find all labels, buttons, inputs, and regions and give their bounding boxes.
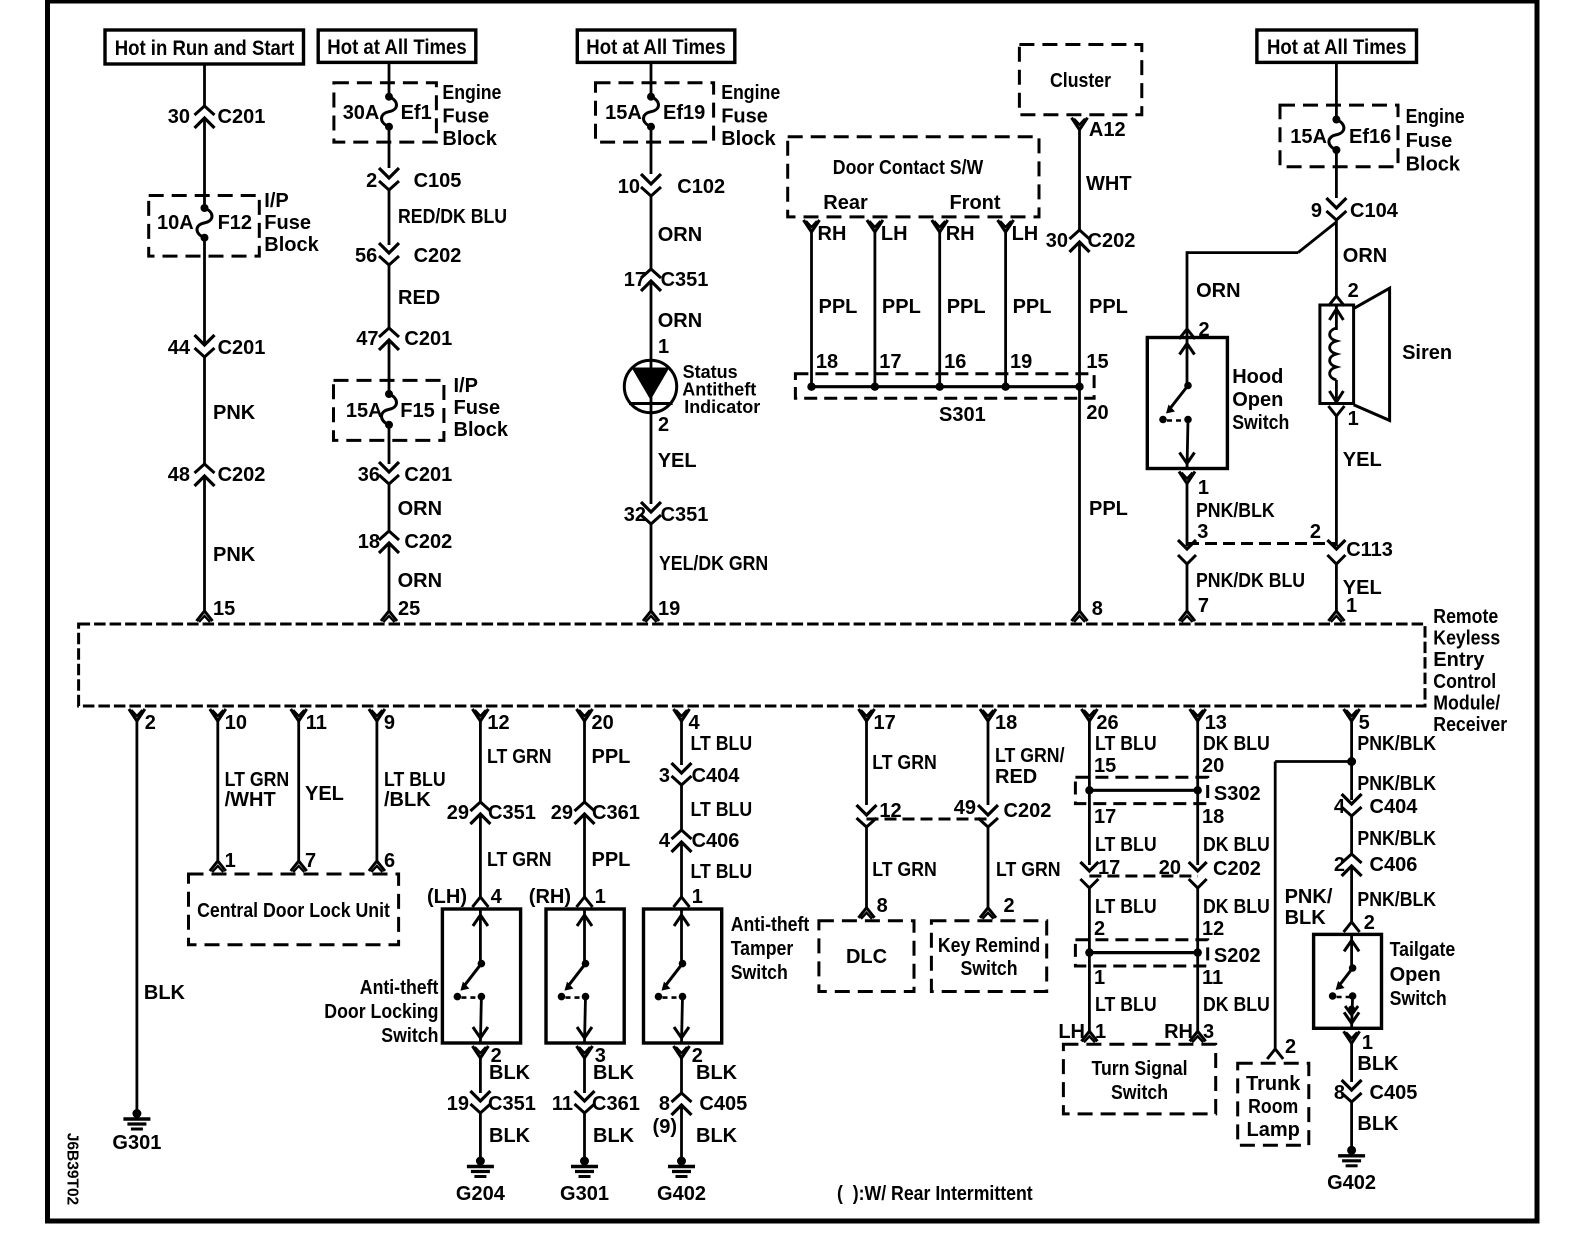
svg-text:4: 4 bbox=[689, 712, 701, 734]
svg-text:6: 6 bbox=[384, 850, 395, 872]
svg-text:LT BLU: LT BLU bbox=[691, 861, 753, 883]
wire LT BLU from C406 to tamper switch pin 1 bbox=[680, 842, 683, 898]
Central Door Lock Unit dashed box bbox=[189, 874, 399, 945]
svg-text:PPL: PPL bbox=[1089, 296, 1128, 318]
wire YEL from siren pin 1 to C113 bbox=[1335, 416, 1338, 546]
RH switch pin 3 fork bbox=[577, 1046, 593, 1058]
module pin 7 (top of RKE module) bbox=[1179, 611, 1195, 621]
door lock unit pin 1 fork bbox=[210, 861, 226, 871]
svg-text:DLC: DLC bbox=[846, 946, 887, 968]
svg-text:18: 18 bbox=[995, 712, 1017, 734]
svg-text:LT BLU: LT BLU bbox=[384, 769, 446, 791]
LH switch pin 4 chevron bbox=[472, 897, 488, 907]
door contact pin fork LH (Front) bbox=[998, 220, 1014, 232]
svg-text:LT BLU: LT BLU bbox=[691, 733, 753, 755]
svg-text:G402: G402 bbox=[1327, 1172, 1376, 1194]
svg-text:WHT: WHT bbox=[1086, 173, 1132, 195]
connector C113 pin 2 (pointing down) bbox=[1327, 540, 1345, 549]
RH switch pin 1 chevron bbox=[577, 897, 593, 907]
svg-text:PNK/BLK: PNK/BLK bbox=[1357, 773, 1436, 795]
svg-text:Hot at All Times: Hot at All Times bbox=[1267, 36, 1406, 59]
svg-text:PNK: PNK bbox=[213, 402, 256, 424]
wire from F12 to connector C201 pin 44 bbox=[203, 238, 206, 345]
door lock unit pin 7 fork bbox=[291, 861, 307, 871]
Anti-theft Tamper Switch box bbox=[644, 909, 722, 1043]
svg-text:(RH): (RH) bbox=[529, 886, 571, 908]
siren horn shape bbox=[1354, 288, 1390, 420]
wire PPL from door contact RH to splice S301 bbox=[938, 232, 941, 387]
svg-text:BLK: BLK bbox=[489, 1062, 531, 1084]
svg-text:Fuse: Fuse bbox=[721, 106, 768, 128]
Key Remind Switch dashed box bbox=[931, 921, 1046, 992]
svg-text:16: 16 bbox=[944, 351, 966, 373]
svg-text:26: 26 bbox=[1096, 712, 1118, 734]
svg-text:PNK/BLK: PNK/BLK bbox=[1357, 828, 1436, 850]
svg-text:C202: C202 bbox=[1004, 800, 1052, 822]
svg-text:Hot at All Times: Hot at All Times bbox=[327, 36, 466, 59]
svg-text:G204: G204 bbox=[456, 1183, 506, 1205]
svg-text:2: 2 bbox=[1348, 280, 1359, 302]
wire YEL from module pin 11 to door lock unit pin 7 bbox=[297, 721, 300, 861]
tamper switch pin 1 chevron bbox=[674, 897, 690, 907]
svg-text:LT GRN: LT GRN bbox=[487, 746, 552, 768]
wire LT GRN from module pin 12 to C351 bbox=[479, 721, 482, 802]
svg-text:C104: C104 bbox=[1350, 200, 1399, 222]
svg-text:J6B39T02: J6B39T02 bbox=[64, 1133, 81, 1205]
svg-text:LT BLU: LT BLU bbox=[1095, 733, 1157, 755]
svg-text:BLK: BLK bbox=[144, 982, 186, 1004]
svg-text:Trunk: Trunk bbox=[1246, 1073, 1301, 1095]
wire DK BLU from S302 to C202 pin 20 bbox=[1196, 790, 1199, 865]
svg-text:C201: C201 bbox=[404, 464, 452, 486]
svg-text:4: 4 bbox=[659, 830, 671, 852]
svg-text:17: 17 bbox=[624, 269, 646, 291]
svg-text:Tamper: Tamper bbox=[731, 938, 794, 960]
ground G402 (right) bbox=[1347, 1146, 1356, 1155]
svg-text:PPL: PPL bbox=[819, 296, 858, 318]
svg-text:5: 5 bbox=[1359, 712, 1370, 734]
svg-text:56: 56 bbox=[355, 245, 377, 267]
svg-text:F12: F12 bbox=[218, 212, 252, 234]
svg-text:Fuse: Fuse bbox=[1406, 130, 1453, 152]
svg-text:YEL: YEL bbox=[658, 450, 697, 472]
svg-text:C202: C202 bbox=[218, 464, 266, 486]
svg-text:20: 20 bbox=[592, 712, 614, 734]
Hood Open Switch box bbox=[1147, 338, 1227, 469]
connector C201 pin 44 (in-line, pointing down) bbox=[195, 335, 215, 345]
connector C405 pin 8 (in-line, pointing up) bbox=[672, 1093, 692, 1102]
fuse Ef16 15A bbox=[1332, 116, 1340, 124]
svg-text:RED: RED bbox=[398, 287, 440, 309]
hood switch pin 1 fork bbox=[1179, 472, 1195, 484]
svg-text:Switch: Switch bbox=[960, 958, 1017, 980]
svg-text:Open: Open bbox=[1390, 964, 1441, 986]
svg-text:Engine: Engine bbox=[721, 82, 780, 104]
connector C202 dashed link (pins 17/20) bbox=[1089, 875, 1197, 878]
svg-text:C351: C351 bbox=[661, 504, 709, 526]
power source box: Hot at All Times (left) bbox=[318, 30, 476, 62]
wire BLK from RH switch to C361 bbox=[583, 1058, 586, 1093]
svg-text:BLK: BLK bbox=[696, 1125, 738, 1147]
wire ORN from C201 to C202 bbox=[388, 484, 391, 531]
wire LT BLU from C404 to C406 bbox=[680, 785, 683, 830]
wire BLK from C351 to ground G204 bbox=[479, 1113, 482, 1158]
svg-text:12: 12 bbox=[1202, 918, 1224, 940]
svg-text:18: 18 bbox=[816, 351, 838, 373]
wire ORN from C202 to module pin 25 bbox=[388, 543, 391, 611]
wire PNK/BLK from C404 to C406 bbox=[1350, 816, 1353, 854]
svg-text:C102: C102 bbox=[677, 176, 725, 198]
splice S301 dashed box bbox=[795, 374, 1094, 398]
svg-text:17: 17 bbox=[874, 712, 896, 734]
svg-text:17: 17 bbox=[1094, 806, 1116, 828]
svg-text:20: 20 bbox=[1086, 402, 1108, 424]
module pin 15 (top of RKE module) bbox=[197, 611, 213, 621]
svg-text:BLK: BLK bbox=[593, 1062, 635, 1084]
svg-text:4: 4 bbox=[491, 886, 503, 908]
svg-text:C201: C201 bbox=[218, 106, 266, 128]
wire PPL from splice S301 to module pin 8 bbox=[1078, 387, 1081, 611]
anti-theft door locking switch RH contacts bbox=[577, 915, 592, 926]
svg-text:G402: G402 bbox=[657, 1183, 706, 1205]
Trunk Room Lamp dashed box bbox=[1238, 1063, 1309, 1145]
wire LT GRN from C351 to LH switch pin 4 bbox=[479, 814, 482, 898]
connector C404 pin 4 (in-line, pointing down) bbox=[1342, 794, 1362, 804]
splice S302 dashed box bbox=[1075, 777, 1207, 803]
tailgate switch pin 2 chevron bbox=[1344, 922, 1360, 932]
wire from Hot at All Times box to Engine Fuse Block Ef19 bbox=[650, 62, 653, 96]
svg-text:ORN: ORN bbox=[1196, 280, 1240, 302]
wire BLK from tailgate switch to C405 bbox=[1350, 1043, 1353, 1082]
connector C351 pin 32 (in-line, pointing down) bbox=[641, 502, 661, 512]
wire BLK from tamper switch to C405 bbox=[680, 1058, 683, 1093]
svg-text:C113: C113 bbox=[1346, 539, 1393, 561]
svg-text:20: 20 bbox=[1159, 857, 1181, 879]
ground G204 bbox=[476, 1157, 485, 1166]
svg-text:49: 49 bbox=[954, 797, 976, 819]
svg-text:Key Remind: Key Remind bbox=[938, 935, 1040, 957]
Status Antitheft Indicator lamp bbox=[624, 360, 676, 412]
hood open switch contacts bbox=[1180, 344, 1195, 355]
svg-text:Front: Front bbox=[949, 192, 1000, 214]
wire from C201 to fuse F12 bbox=[203, 118, 206, 208]
svg-text:PPL: PPL bbox=[1013, 296, 1052, 318]
svg-text:Ef1: Ef1 bbox=[401, 102, 432, 124]
svg-text:Entry: Entry bbox=[1433, 649, 1485, 671]
wire LT BLU/BLK from module pin 9 to door lock unit pin 6 bbox=[375, 721, 378, 861]
svg-text:Switch: Switch bbox=[1232, 412, 1289, 434]
connector C361 pin 11 (in-line, pointing down) bbox=[575, 1091, 595, 1101]
power source box: Hot at All Times (right) bbox=[1257, 30, 1417, 62]
svg-text:13: 13 bbox=[1205, 712, 1227, 734]
svg-text:Receiver: Receiver bbox=[1433, 714, 1507, 736]
svg-text:15: 15 bbox=[213, 598, 235, 620]
svg-text:3: 3 bbox=[1197, 521, 1208, 543]
wire PPL from C202 to splice S301 bbox=[1078, 242, 1081, 387]
wire PNK/BLK from C406 to tailgate switch pin 2 bbox=[1350, 866, 1353, 923]
svg-text:LT BLU: LT BLU bbox=[1095, 834, 1157, 856]
connector C202 pin 12 (pointing down) bbox=[857, 805, 877, 815]
svg-text:ORN: ORN bbox=[1343, 245, 1387, 267]
svg-text:C405: C405 bbox=[1370, 1082, 1418, 1104]
Tailgate Open Switch box bbox=[1314, 934, 1382, 1028]
svg-text:RH: RH bbox=[818, 223, 847, 245]
svg-text:YEL: YEL bbox=[1343, 449, 1382, 471]
svg-text:2: 2 bbox=[1094, 918, 1105, 940]
svg-text:BLK: BLK bbox=[696, 1062, 738, 1084]
connector C405 pin 8 (in-line, pointing down) bbox=[1342, 1080, 1362, 1090]
cluster pin A12 fork bbox=[1072, 118, 1088, 130]
turn signal LH pin fork bbox=[1081, 1031, 1097, 1041]
svg-text:Fuse: Fuse bbox=[442, 106, 489, 128]
svg-text:1: 1 bbox=[595, 886, 606, 908]
wire PPL from C361 to RH switch pin 1 bbox=[583, 814, 586, 898]
svg-text:Central Door Lock Unit: Central Door Lock Unit bbox=[197, 900, 390, 922]
connector C202 pin 30 (in-line, pointing up) bbox=[1070, 230, 1090, 239]
svg-text:36: 36 bbox=[358, 464, 380, 486]
Door Contact S/W dashed box bbox=[788, 137, 1039, 217]
svg-text:30: 30 bbox=[1046, 230, 1068, 252]
svg-text:10A: 10A bbox=[157, 212, 194, 234]
svg-text:1: 1 bbox=[658, 336, 669, 358]
ground G301 (center) bbox=[580, 1157, 589, 1166]
wire WHT from cluster A12 to C202 bbox=[1078, 130, 1081, 230]
svg-text:29: 29 bbox=[447, 802, 469, 824]
wire LT GRN/RED from module pin 18 to C202 pin 49 bbox=[987, 721, 990, 805]
svg-text:10: 10 bbox=[618, 176, 640, 198]
wire ORN from C102 to C351 bbox=[650, 196, 653, 269]
branch node junction bbox=[1347, 757, 1356, 766]
svg-text:20: 20 bbox=[1202, 755, 1224, 777]
connector C105 pin 2 (in-line, pointing down) bbox=[379, 168, 399, 178]
svg-text:1: 1 bbox=[1198, 477, 1209, 499]
svg-text:DK BLU: DK BLU bbox=[1203, 733, 1270, 755]
svg-text:YEL: YEL bbox=[305, 783, 344, 805]
wire from Hot in Run and Start box down to connector C201 bbox=[203, 64, 206, 106]
module pin 2 (bottom of RKE module) bbox=[129, 709, 145, 721]
svg-text:DK BLU: DK BLU bbox=[1203, 896, 1270, 918]
I/P Fuse Block (F15) dashed box bbox=[334, 380, 444, 440]
svg-text:7: 7 bbox=[1198, 595, 1209, 617]
Engine Fuse Block (Ef16) dashed box bbox=[1280, 105, 1398, 167]
svg-text:C202: C202 bbox=[1213, 858, 1261, 880]
I/P Fuse Block (F12) dashed box bbox=[149, 196, 260, 257]
svg-text:C405: C405 bbox=[699, 1093, 747, 1115]
wire ORN from C104 to siren, with branch node bbox=[1335, 220, 1338, 296]
wire PNK/BLK from hood switch to C113 bbox=[1186, 484, 1189, 547]
svg-text:Switch: Switch bbox=[731, 962, 788, 984]
svg-text:PPL: PPL bbox=[882, 296, 921, 318]
svg-text:Ef19: Ef19 bbox=[663, 102, 705, 124]
splice S301 bus wire bbox=[812, 385, 1080, 388]
wire LT BLU from S302 to C202 pin 17 bbox=[1088, 790, 1091, 865]
tamper switch pin 2 fork bbox=[674, 1046, 690, 1058]
siren coil bbox=[1329, 309, 1343, 320]
svg-text:(LH): (LH) bbox=[427, 886, 467, 908]
svg-text:LH: LH bbox=[1012, 223, 1039, 245]
connector C406 pin 4 (in-line, pointing up) bbox=[672, 830, 692, 839]
module pin 18 (bottom of RKE module) bbox=[980, 709, 996, 721]
fuse F15 15A bbox=[385, 390, 393, 398]
svg-text:LT GRN: LT GRN bbox=[487, 849, 552, 871]
svg-text:15A: 15A bbox=[346, 400, 383, 422]
svg-text:ORN: ORN bbox=[658, 224, 702, 246]
svg-text:32: 32 bbox=[624, 504, 646, 526]
wire DK BLU from S202 to turn signal switch RH pin 3 bbox=[1196, 953, 1199, 1031]
C202 fork below pin 20 bbox=[1189, 879, 1207, 888]
wire from Hot at All Times box to Engine Fuse Block bbox=[388, 62, 391, 96]
svg-text:RH: RH bbox=[946, 223, 975, 245]
svg-text:C361: C361 bbox=[592, 802, 640, 824]
module pin 5 (bottom of RKE module) bbox=[1344, 709, 1360, 721]
connector C104 pin 9 (in-line, pointing down) bbox=[1326, 198, 1346, 208]
wire PPL from module pin 20 to C361 bbox=[583, 721, 586, 802]
door contact pin fork RH (Front) bbox=[932, 220, 948, 232]
fuse F12 10A bbox=[201, 204, 209, 212]
svg-text:15: 15 bbox=[1086, 351, 1108, 373]
tailgate switch pin 1 fork bbox=[1344, 1031, 1360, 1043]
wire LT BLU from C202 to splice S202 bbox=[1088, 888, 1091, 953]
svg-text:4: 4 bbox=[1334, 796, 1346, 818]
svg-text:15A: 15A bbox=[1290, 126, 1327, 148]
svg-text:YEL/DK GRN: YEL/DK GRN bbox=[659, 553, 768, 575]
power source box: Hot at All Times (middle) bbox=[577, 30, 735, 62]
wire LT BLU from S202 to turn signal switch LH pin 1 bbox=[1088, 953, 1091, 1031]
door lock unit pin 6 fork bbox=[369, 861, 385, 871]
svg-text:Rear: Rear bbox=[823, 192, 868, 214]
svg-text:Room: Room bbox=[1248, 1096, 1298, 1118]
svg-text:Control: Control bbox=[1433, 671, 1496, 693]
svg-text:DK BLU: DK BLU bbox=[1203, 994, 1270, 1016]
connector C351 pin 19 (in-line, pointing down) bbox=[470, 1091, 490, 1101]
svg-text:Engine: Engine bbox=[1406, 106, 1465, 128]
svg-text:LT BLU: LT BLU bbox=[691, 799, 753, 821]
svg-text:Remote: Remote bbox=[1433, 606, 1498, 628]
connector C202 pin 18 (in-line, pointing up) bbox=[379, 531, 399, 540]
wire PNK/DK BLU from C113 to module pin 7 bbox=[1186, 564, 1189, 611]
svg-text:BLK: BLK bbox=[1357, 1113, 1399, 1135]
svg-text:C201: C201 bbox=[404, 328, 452, 350]
svg-text:BLK: BLK bbox=[1285, 907, 1327, 929]
door contact pin fork LH (Rear) bbox=[867, 220, 883, 232]
wire YEL from indicator pin 2 to C351 bbox=[650, 413, 653, 504]
wire BLK from module pin 2 to ground G301 bbox=[135, 721, 138, 1110]
svg-text:G301: G301 bbox=[112, 1132, 161, 1154]
svg-text:19: 19 bbox=[1010, 351, 1032, 373]
svg-text:2: 2 bbox=[1285, 1036, 1296, 1058]
connector C201 pin 30 (in-line, pointing up) bbox=[195, 106, 215, 115]
svg-text:C406: C406 bbox=[1370, 854, 1418, 876]
module pin 20 (bottom of RKE module) bbox=[577, 709, 593, 721]
DLC pin 8 fork bbox=[859, 908, 875, 918]
svg-text:LT GRN: LT GRN bbox=[996, 859, 1061, 881]
svg-text:S301: S301 bbox=[939, 404, 986, 426]
ground G402 (center) bbox=[677, 1157, 686, 1166]
wire RED from C202 to C201 bbox=[388, 265, 391, 328]
svg-text:C404: C404 bbox=[1370, 796, 1419, 818]
svg-text:ORN: ORN bbox=[398, 498, 442, 520]
module pin 9 (bottom of RKE module) bbox=[369, 709, 385, 721]
svg-text:8: 8 bbox=[1092, 598, 1103, 620]
siren pin 2 chevron bbox=[1328, 296, 1344, 306]
svg-text:Switch: Switch bbox=[1390, 988, 1447, 1010]
svg-text:LT BLU: LT BLU bbox=[1095, 994, 1157, 1016]
svg-text:8: 8 bbox=[1334, 1082, 1345, 1104]
wire DK BLU from C202 to splice S202 bbox=[1196, 888, 1199, 953]
svg-text:25: 25 bbox=[398, 598, 420, 620]
svg-text:PPL: PPL bbox=[947, 296, 986, 318]
svg-text:I/P: I/P bbox=[454, 375, 478, 397]
connector C202 pin 48 (in-line, pointing up) bbox=[195, 464, 215, 473]
svg-text:ORN: ORN bbox=[658, 310, 702, 332]
svg-text:DK BLU: DK BLU bbox=[1203, 834, 1270, 856]
svg-text:LT GRN/: LT GRN/ bbox=[995, 745, 1065, 767]
wire PPL from door contact LH to splice S301 bbox=[874, 232, 877, 387]
svg-text:C202: C202 bbox=[404, 531, 452, 553]
module pin 25 (top of RKE module) bbox=[381, 611, 397, 621]
Remote Keyless Entry Control Module/Receiver dashed box bbox=[79, 624, 1425, 706]
splice S302 bus wire bbox=[1089, 789, 1197, 792]
svg-text:47: 47 bbox=[356, 328, 378, 350]
svg-text:( ):W/ Rear Intermittent: ( ):W/ Rear Intermittent bbox=[837, 1183, 1033, 1205]
svg-text:11: 11 bbox=[306, 712, 327, 734]
svg-text:C351: C351 bbox=[488, 802, 536, 824]
svg-text:Lamp: Lamp bbox=[1247, 1119, 1300, 1141]
module pin 19 (top of RKE module) bbox=[643, 611, 659, 621]
svg-text:30A: 30A bbox=[343, 102, 380, 124]
wire LT GRN from C202 to DLC pin 8 bbox=[865, 827, 868, 908]
svg-text:Block: Block bbox=[264, 234, 319, 256]
wire LT GRN/WHT from module pin 10 to door lock unit pin 1 bbox=[216, 721, 219, 861]
svg-text:15A: 15A bbox=[605, 102, 642, 124]
wire YEL from C113 to module pin 1 bbox=[1335, 564, 1338, 611]
svg-text:RED: RED bbox=[995, 766, 1037, 788]
wire LT BLU from module pin 4 to C404 bbox=[680, 721, 683, 765]
svg-text:Block: Block bbox=[442, 128, 497, 150]
module pin 26 (bottom of RKE module) bbox=[1081, 709, 1097, 721]
svg-text:LT GRN: LT GRN bbox=[872, 859, 937, 881]
module pin 4 (bottom of RKE module) bbox=[674, 709, 690, 721]
ground G301 (left) bbox=[132, 1109, 141, 1118]
splice S202 bus wire bbox=[1089, 951, 1197, 954]
connector C202 pin 49 (pointing down) bbox=[978, 805, 998, 815]
svg-text:RH: RH bbox=[1164, 1021, 1193, 1043]
svg-text:C202: C202 bbox=[1088, 230, 1136, 252]
svg-text:2: 2 bbox=[1364, 912, 1375, 934]
fuse Ef1 30A bbox=[385, 93, 393, 101]
svg-text:Engine: Engine bbox=[442, 82, 501, 104]
svg-text:Hot at All Times: Hot at All Times bbox=[586, 36, 725, 59]
svg-text:BLK: BLK bbox=[489, 1125, 531, 1147]
svg-text:Anti-theft: Anti-theft bbox=[360, 977, 439, 999]
wire LT GRN from module pin 17 to C202 bbox=[865, 721, 868, 805]
wire PPL from door contact RH to splice S301 bbox=[810, 232, 813, 387]
svg-text:30: 30 bbox=[168, 106, 190, 128]
module pin 12 (bottom of RKE module) bbox=[472, 709, 488, 721]
svg-text:PNK: PNK bbox=[213, 544, 256, 566]
power source box: Hot in Run and Start bbox=[105, 30, 304, 64]
svg-text:BLK: BLK bbox=[593, 1125, 635, 1147]
svg-text:Block: Block bbox=[1406, 154, 1461, 176]
svg-text:PNK/BLK: PNK/BLK bbox=[1357, 733, 1436, 755]
svg-text:Block: Block bbox=[721, 128, 776, 150]
svg-text:C351: C351 bbox=[661, 269, 709, 291]
svg-text:1: 1 bbox=[1362, 1032, 1373, 1054]
module pin 1 (top of RKE module) bbox=[1328, 611, 1344, 621]
svg-text:Keyless: Keyless bbox=[1433, 628, 1500, 650]
wire from Ef16 to connector C104 bbox=[1335, 150, 1338, 198]
anti-theft door locking switch LH contacts bbox=[473, 915, 488, 926]
